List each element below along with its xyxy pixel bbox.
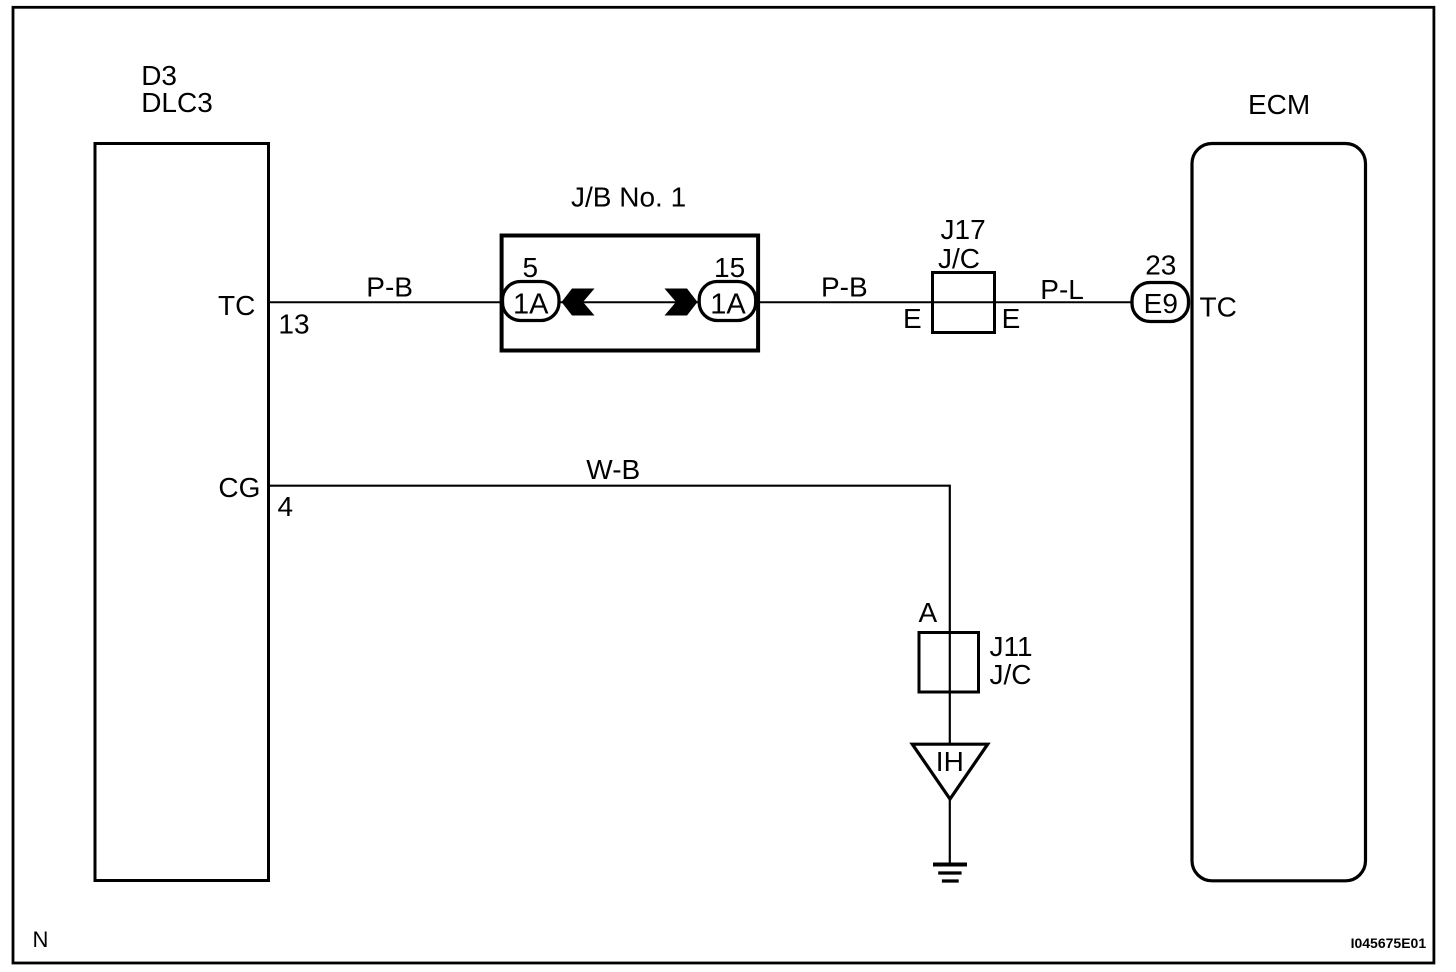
svg-text:15: 15 — [714, 252, 745, 283]
connector oval 1A pin 15 — [699, 282, 756, 321]
wire TC net: DLC3 pin 13 to ECM E9 — [269, 301, 1134, 303]
svg-text:W-B: W-B — [586, 454, 640, 485]
ground triangle IH — [912, 744, 987, 799]
svg-text:P-L: P-L — [1040, 274, 1084, 305]
svg-text:IH: IH — [936, 746, 964, 777]
ground symbol — [933, 863, 967, 867]
svg-text:A: A — [919, 597, 938, 628]
svg-text:J/C: J/C — [990, 659, 1032, 690]
svg-text:4: 4 — [278, 491, 294, 522]
svg-text:E: E — [903, 303, 922, 334]
svg-text:TC: TC — [218, 290, 255, 321]
arrow right (points right) — [665, 289, 698, 316]
arrow left (points left) — [562, 289, 595, 316]
svg-text:E9: E9 — [1144, 288, 1178, 319]
svg-text:ECM: ECM — [1248, 89, 1310, 120]
svg-text:1A: 1A — [710, 289, 746, 321]
svg-text:P-B: P-B — [366, 272, 413, 303]
svg-text:I045675E01: I045675E01 — [1351, 935, 1427, 951]
wire IH to ground — [949, 797, 951, 864]
connector oval 1A pin 5 — [503, 282, 560, 321]
svg-text:CG: CG — [218, 472, 260, 503]
connector ECM — [1192, 144, 1366, 881]
junction connector J11 J/C — [919, 633, 979, 693]
svg-text:DLC3: DLC3 — [141, 87, 213, 118]
svg-text:E: E — [1002, 303, 1021, 334]
svg-text:J11: J11 — [990, 631, 1033, 662]
svg-text:5: 5 — [523, 252, 539, 283]
svg-text:N: N — [33, 927, 49, 952]
connector D3 DLC3 — [95, 144, 269, 881]
junction block J/B No. 1 — [502, 236, 758, 351]
svg-text:23: 23 — [1145, 250, 1176, 281]
svg-text:J/C: J/C — [938, 243, 980, 274]
svg-text:J/B No. 1: J/B No. 1 — [571, 182, 686, 213]
svg-text:J17: J17 — [941, 214, 986, 245]
svg-text:P-B: P-B — [821, 272, 868, 303]
connector oval E9 pin 23 — [1132, 283, 1189, 322]
svg-text:TC: TC — [1200, 292, 1237, 323]
svg-text:1A: 1A — [513, 289, 549, 321]
svg-text:13: 13 — [278, 309, 309, 340]
junction connector J17 J/C — [933, 273, 995, 333]
wire CG net: DLC3 pin 4 to J11 to triangle IH — [269, 486, 950, 744]
